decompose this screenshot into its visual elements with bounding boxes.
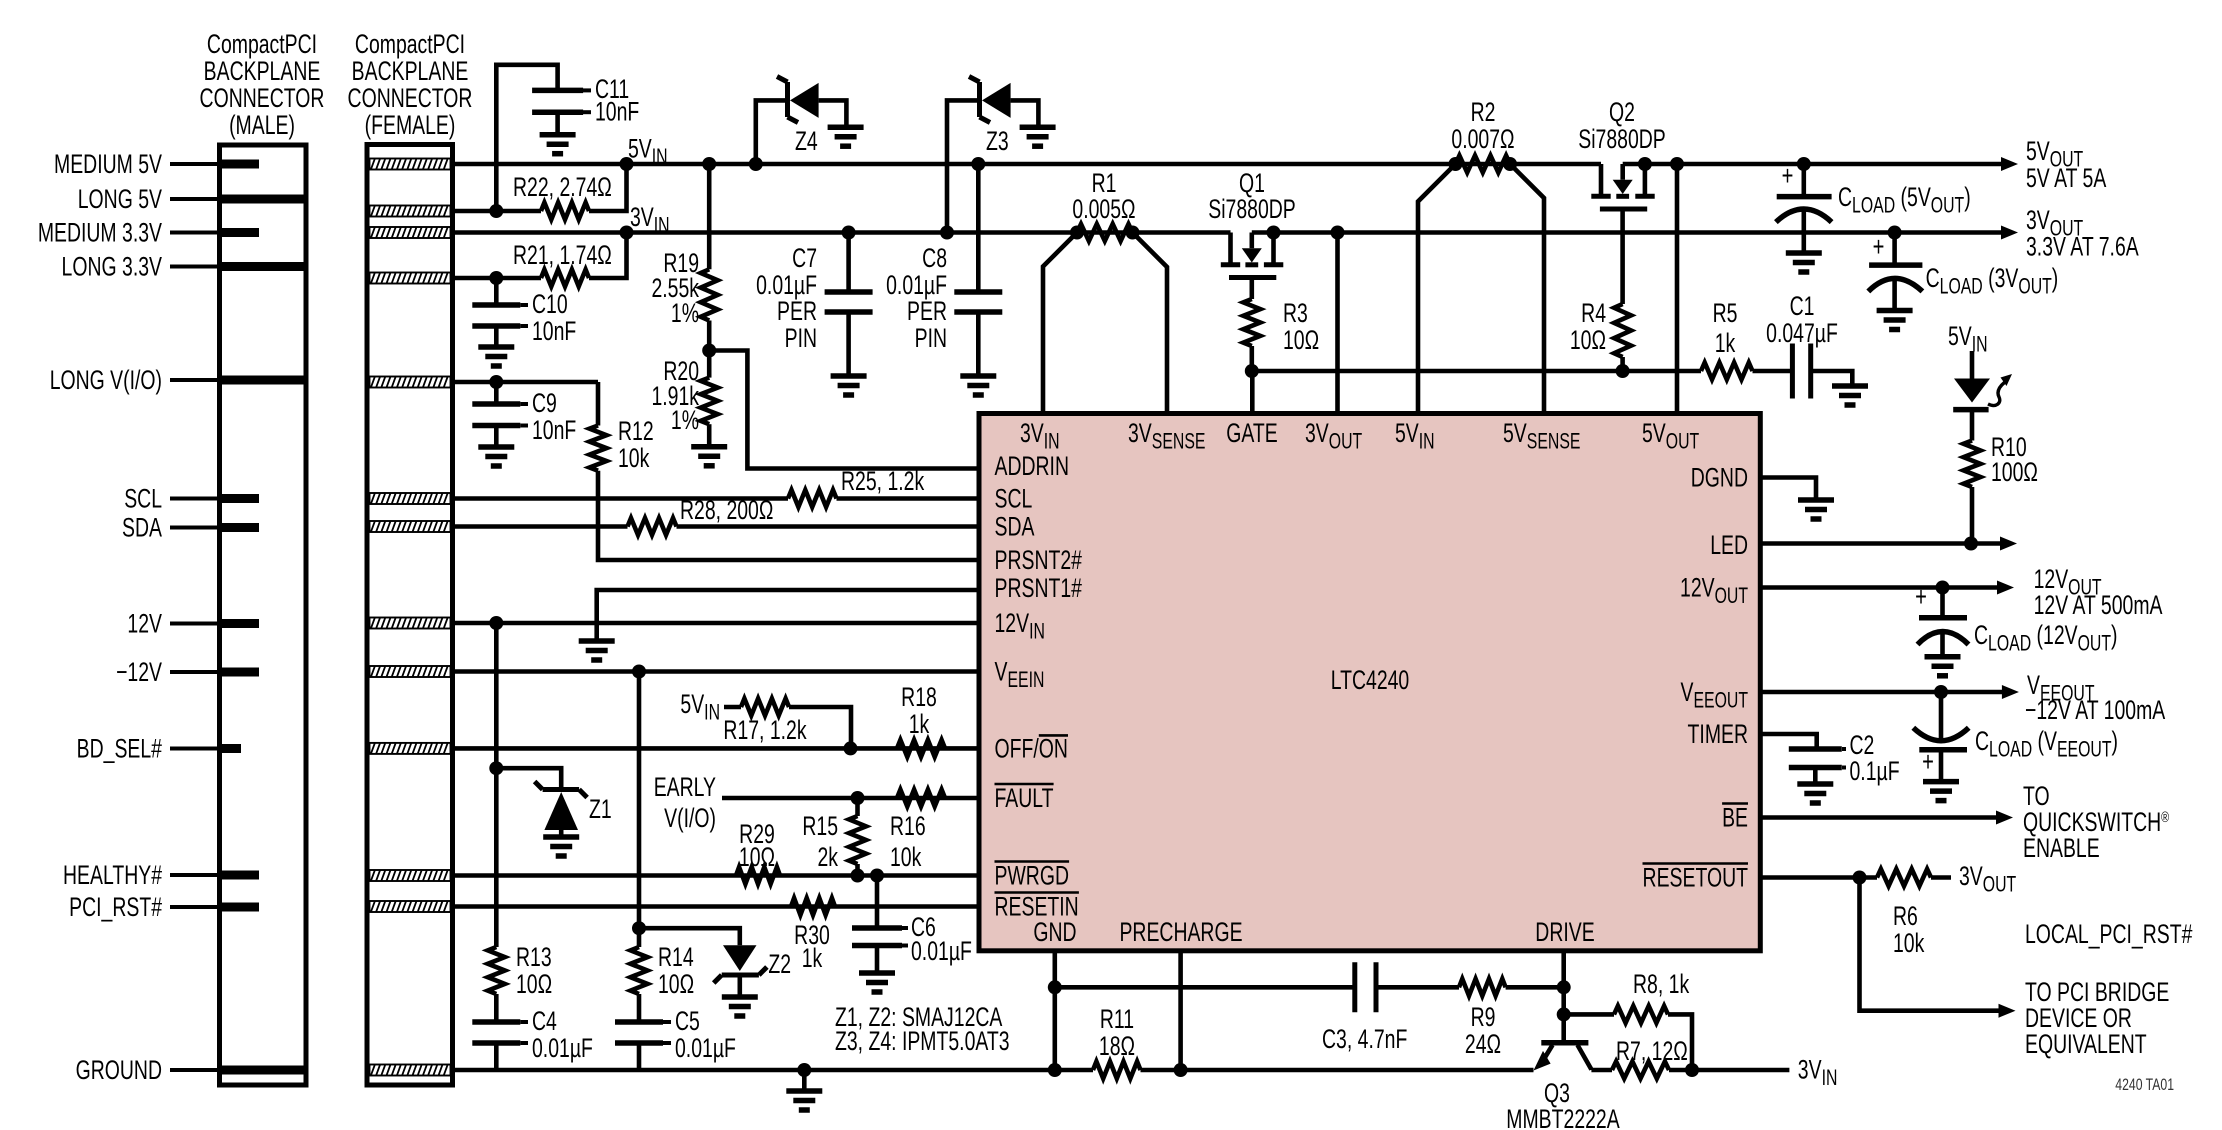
svg-text:10nF: 10nF bbox=[532, 316, 576, 346]
resistor R21 1.74 ohm bbox=[453, 276, 542, 281]
svg-text:10k: 10k bbox=[618, 443, 650, 473]
wire OFF/ON from BD_SEL# bbox=[453, 746, 980, 751]
resistor R3 10 ohm bbox=[1250, 278, 1255, 300]
svg-text:BE: BE bbox=[1722, 802, 1748, 832]
zener Z2 SMAJ12CA bbox=[632, 921, 646, 935]
wire RESETIN from PCI_RST# bbox=[453, 904, 980, 909]
svg-text:10k: 10k bbox=[890, 842, 922, 872]
svg-text:MMBT2222A: MMBT2222A bbox=[1506, 1104, 1620, 1130]
svg-text:24Ω: 24Ω bbox=[1465, 1029, 1501, 1059]
svg-text:1k: 1k bbox=[802, 943, 823, 973]
resistor R11 18 ohm bbox=[1093, 1062, 1141, 1079]
svg-text:BD_SEL#: BD_SEL# bbox=[77, 733, 162, 763]
transistor Q1 Si7880DP MOSFET bbox=[1228, 233, 1233, 263]
resistor R30 1k bbox=[791, 898, 835, 915]
svg-text:LTC4240: LTC4240 bbox=[1331, 665, 1410, 695]
pin SDA (male) bbox=[220, 523, 260, 532]
resistor R8 1k bbox=[1564, 1012, 1614, 1017]
resistor R28 200 ohm on SDA bbox=[453, 524, 628, 529]
pin BD_SEL# (female) bbox=[370, 743, 451, 754]
svg-text:MEDIUM 3.3V: MEDIUM 3.3V bbox=[38, 217, 162, 247]
svg-text:5V AT 5A: 5V AT 5A bbox=[2026, 163, 2107, 193]
svg-text:C7: C7 bbox=[792, 243, 817, 273]
svg-text:PIN: PIN bbox=[915, 323, 947, 353]
svg-text:Z1: Z1 bbox=[589, 794, 612, 824]
wire 5VSENSE pin tap bbox=[1510, 164, 1544, 414]
pin SCL (male) bbox=[220, 494, 260, 503]
wire local PCI reset bbox=[1860, 878, 2001, 1011]
resistor R2 0.007 ohm sense bbox=[1456, 156, 1511, 173]
svg-text:R15: R15 bbox=[802, 811, 838, 841]
wire 3VIN rail bbox=[453, 230, 1231, 235]
svg-text:PER: PER bbox=[907, 296, 947, 326]
svg-text:+: + bbox=[1922, 747, 1934, 778]
pin PCI_RST# (female) bbox=[370, 901, 451, 912]
svg-text:CONNECTOR: CONNECTOR bbox=[200, 83, 325, 113]
svg-text:SCL: SCL bbox=[124, 483, 162, 513]
load capacitor CLOAD VEEOUT bbox=[1939, 692, 1944, 739]
svg-text:R9: R9 bbox=[1471, 1002, 1496, 1032]
resistor R15 2k bbox=[855, 798, 860, 816]
resistor R10 100 ohm bbox=[1970, 410, 1975, 441]
svg-text:Z3: Z3 bbox=[986, 126, 1009, 156]
wire 5VOUT pin stub bbox=[1675, 164, 1680, 414]
svg-text:R8, 1k: R8, 1k bbox=[1633, 969, 1689, 999]
wire 3VSENSE pin tap bbox=[1133, 233, 1168, 414]
svg-text:(FEMALE): (FEMALE) bbox=[365, 110, 456, 140]
svg-text:EQUIVALENT: EQUIVALENT bbox=[2025, 1029, 2147, 1059]
resistor R25 1.2k on SCL bbox=[453, 496, 789, 501]
svg-text:R28, 200Ω: R28, 200Ω bbox=[680, 495, 773, 525]
pin MEDIUM 3.3V (male) bbox=[220, 228, 260, 237]
svg-text:CONNECTOR: CONNECTOR bbox=[348, 83, 473, 113]
svg-text:PRECHARGE: PRECHARGE bbox=[1119, 917, 1242, 947]
svg-text:0.047µF: 0.047µF bbox=[1766, 318, 1838, 348]
svg-text:Z4: Z4 bbox=[795, 126, 818, 156]
svg-text:GROUND: GROUND bbox=[76, 1055, 162, 1085]
pin MEDIUM 5V (female) bbox=[370, 159, 451, 170]
pin LONG 5V (female) bbox=[370, 206, 451, 217]
pin GROUND (female) bbox=[370, 1065, 451, 1076]
pin SCL (female) bbox=[370, 493, 451, 504]
svg-text:10Ω: 10Ω bbox=[516, 969, 552, 999]
wire GATE line bbox=[1252, 369, 1701, 374]
svg-text:LONG 5V: LONG 5V bbox=[78, 184, 162, 214]
svg-text:(MALE): (MALE) bbox=[229, 110, 295, 140]
svg-text:R5: R5 bbox=[1713, 298, 1738, 328]
output arrow 5VOUT bbox=[2001, 157, 2018, 171]
svg-text:PER: PER bbox=[777, 296, 817, 326]
pin LONG 5V (male) bbox=[220, 195, 307, 204]
svg-text:R18: R18 bbox=[901, 682, 937, 712]
svg-text:1k: 1k bbox=[909, 709, 930, 739]
svg-text:PRSNT1#: PRSNT1# bbox=[995, 573, 1082, 603]
svg-text:C5: C5 bbox=[675, 1006, 700, 1036]
svg-text:+: + bbox=[1782, 161, 1794, 192]
svg-text:HEALTHY#: HEALTHY# bbox=[63, 860, 162, 890]
svg-text:3.3V AT 7.6A: 3.3V AT 7.6A bbox=[2026, 231, 2139, 261]
pin MEDIUM 3.3V (female) bbox=[370, 227, 451, 238]
pin −12V (female) bbox=[370, 666, 451, 677]
wire PRECHARGE pin stub bbox=[1178, 951, 1183, 1070]
capacitor C9 10nF bbox=[494, 382, 499, 404]
resistor R18 1k bbox=[897, 740, 945, 757]
svg-text:1%: 1% bbox=[671, 298, 699, 328]
svg-text:FAULT: FAULT bbox=[995, 783, 1054, 813]
pin GROUND (male) bbox=[220, 1066, 307, 1075]
wire PRSNT1# to ground bbox=[597, 590, 979, 641]
wire VEEIN bbox=[453, 669, 980, 674]
svg-text:R25, 1.2k: R25, 1.2k bbox=[841, 466, 924, 496]
svg-text:R4: R4 bbox=[1581, 298, 1606, 328]
svg-text:R12: R12 bbox=[618, 416, 654, 446]
output arrow 3VOUT bbox=[2001, 226, 2018, 240]
svg-text:ENABLE: ENABLE bbox=[2023, 833, 2100, 863]
svg-text:R2: R2 bbox=[1471, 97, 1496, 127]
wire DRIVE pin stub bbox=[1561, 951, 1566, 1041]
svg-text:PCI_RST#: PCI_RST# bbox=[69, 892, 162, 922]
capacitor C8 0.01uF per pin bbox=[976, 164, 981, 292]
resistor R6 10k bbox=[1877, 869, 1931, 886]
zener Z4 IPMT5.0AT3 bbox=[756, 100, 786, 164]
svg-text:−12V: −12V bbox=[116, 657, 162, 687]
capacitor C6 0.01uF bbox=[875, 876, 880, 929]
svg-text:Q2: Q2 bbox=[1609, 97, 1635, 127]
svg-text:Si7880DP: Si7880DP bbox=[1208, 194, 1296, 224]
svg-text:100Ω: 100Ω bbox=[1991, 457, 2038, 487]
svg-text:C9: C9 bbox=[532, 388, 557, 418]
svg-text:0.005Ω: 0.005Ω bbox=[1072, 194, 1135, 224]
wire ground bottom rail bbox=[453, 1068, 1094, 1073]
svg-text:10Ω: 10Ω bbox=[1283, 325, 1319, 355]
load capacitor CLOAD 12VOUT bbox=[1940, 588, 1945, 618]
svg-text:ADDRIN: ADDRIN bbox=[995, 451, 1069, 481]
wire 5VIN rail bbox=[453, 162, 1602, 167]
IC U1 LTC4240 body bbox=[979, 414, 1760, 951]
svg-text:DGND: DGND bbox=[1691, 462, 1748, 492]
svg-text:R17, 1.2k: R17, 1.2k bbox=[723, 715, 806, 745]
pin 12V (male) bbox=[220, 619, 260, 628]
capacitor C1 0.047uF bbox=[1753, 369, 1793, 374]
svg-text:10nF: 10nF bbox=[595, 96, 639, 126]
svg-text:SDA: SDA bbox=[995, 511, 1035, 541]
wire GATE pin stub bbox=[1250, 371, 1255, 414]
svg-text:Z2: Z2 bbox=[768, 949, 791, 979]
svg-text:C1: C1 bbox=[1790, 291, 1815, 321]
svg-text:PRSNT2#: PRSNT2# bbox=[995, 545, 1082, 575]
svg-text:10Ω: 10Ω bbox=[658, 969, 694, 999]
capacitor C4 0.01uF bbox=[494, 994, 499, 1022]
svg-text:SCL: SCL bbox=[995, 483, 1033, 513]
wire 3VIN pin tap bbox=[1043, 233, 1077, 414]
wire 12VOUT output bbox=[1760, 585, 1999, 590]
capacitor C7 0.01uF per pin bbox=[846, 233, 851, 293]
connector J1 CompactPCI backplane male body bbox=[220, 145, 307, 1085]
svg-text:C10: C10 bbox=[532, 289, 568, 319]
transistor Q3 MMBT2222A NPN bbox=[1541, 1040, 1588, 1046]
wire 5VIN pin tap bbox=[1418, 164, 1456, 414]
svg-text:C8: C8 bbox=[922, 243, 947, 273]
svg-text:R6: R6 bbox=[1893, 901, 1918, 931]
pin SDA (female) bbox=[370, 521, 451, 532]
resistor R16 10k bbox=[897, 790, 945, 807]
svg-text:TIMER: TIMER bbox=[1688, 719, 1748, 749]
svg-text:MEDIUM 5V: MEDIUM 5V bbox=[54, 149, 162, 179]
ground symbol bottom rail bbox=[797, 1063, 811, 1077]
svg-text:LED: LED bbox=[1710, 530, 1748, 560]
svg-text:R11: R11 bbox=[1100, 1004, 1134, 1034]
node 3VIN junction dots bbox=[620, 226, 634, 240]
resistor R22 2.74 ohm bbox=[453, 209, 542, 214]
pin HEALTHY# (female) bbox=[370, 870, 451, 881]
wire ADDRIN bbox=[709, 351, 979, 469]
pin BD_SEL# (male) bbox=[220, 744, 242, 753]
svg-text:CompactPCI: CompactPCI bbox=[207, 29, 317, 59]
svg-text:R22, 2.74Ω: R22, 2.74Ω bbox=[513, 172, 612, 202]
svg-text:C3, 4.7nF: C3, 4.7nF bbox=[1322, 1024, 1407, 1054]
pin LONG 3.3V (male) bbox=[220, 262, 307, 271]
wire BE output to quickswitch enable bbox=[1760, 815, 1998, 820]
resistor R13 10 ohm bbox=[488, 947, 505, 994]
svg-text:0.007Ω: 0.007Ω bbox=[1451, 124, 1514, 154]
svg-text:R16: R16 bbox=[890, 811, 926, 841]
svg-text:12V AT 500mA: 12V AT 500mA bbox=[2034, 590, 2163, 620]
resistor R4 10 ohm bbox=[1620, 209, 1625, 304]
svg-text:18Ω: 18Ω bbox=[1099, 1031, 1135, 1061]
svg-text:GATE: GATE bbox=[1226, 418, 1277, 448]
resistor R12 10k bbox=[590, 426, 607, 471]
svg-text:1k: 1k bbox=[1715, 328, 1736, 358]
svg-text:0.01µF: 0.01µF bbox=[532, 1033, 593, 1063]
pin MEDIUM 5V (male) bbox=[220, 160, 260, 169]
svg-text:0.01µF: 0.01µF bbox=[675, 1033, 736, 1063]
pin LONG 3.3V (female) bbox=[370, 273, 451, 284]
pin LONG V(I/O) (male) bbox=[220, 376, 307, 385]
wire PWRGD from HEALTHY# bbox=[453, 873, 980, 878]
capacitor C11 10nF bbox=[496, 65, 557, 211]
svg-text:LONG 3.3V: LONG 3.3V bbox=[62, 251, 163, 281]
svg-text:RESETOUT: RESETOUT bbox=[1643, 862, 1748, 892]
wire FAULT line bbox=[722, 796, 979, 801]
svg-text:DRIVE: DRIVE bbox=[1535, 917, 1594, 947]
pin HEALTHY# (male) bbox=[220, 871, 260, 880]
resistor R5 1k bbox=[1701, 363, 1753, 380]
svg-text:12V: 12V bbox=[127, 608, 162, 638]
svg-text:C4: C4 bbox=[532, 1006, 557, 1036]
pin −12V (male) bbox=[220, 668, 260, 677]
svg-text:4240 TA01: 4240 TA01 bbox=[2115, 1076, 2174, 1094]
zener Z1 SMAJ12CA bbox=[489, 761, 503, 775]
wire GND pin stub bbox=[1053, 951, 1058, 1070]
wire DGND to ground bbox=[1760, 478, 1816, 501]
svg-text:BACKPLANE: BACKPLANE bbox=[352, 56, 469, 86]
svg-text:0.01µF: 0.01µF bbox=[911, 936, 972, 966]
svg-text:LOCAL_PCI_RST#: LOCAL_PCI_RST# bbox=[2025, 919, 2192, 949]
capacitor C5 0.01uF bbox=[637, 994, 642, 1022]
wire VEEOUT output bbox=[1760, 690, 2003, 695]
svg-text:2k: 2k bbox=[817, 842, 838, 872]
capacitor C3 4.7nF bbox=[1055, 985, 1355, 990]
svg-text:R3: R3 bbox=[1283, 298, 1308, 328]
svg-text:Z3, Z4: IPMT5.0AT3: Z3, Z4: IPMT5.0AT3 bbox=[835, 1026, 1010, 1056]
svg-text:OFF/ON: OFF/ON bbox=[995, 733, 1068, 763]
svg-text:V(I/O): V(I/O) bbox=[664, 803, 716, 833]
resistor R14 10 ohm bbox=[631, 947, 648, 994]
zener Z3 IPMT5.0AT3 bbox=[947, 100, 977, 232]
load capacitor CLOAD 5VOUT bbox=[1802, 164, 1807, 197]
wire RESETOUT bbox=[1760, 875, 1877, 880]
svg-text:−12V AT 100mA: −12V AT 100mA bbox=[2025, 695, 2166, 725]
svg-text:+: + bbox=[1873, 232, 1885, 263]
resistor R19 2.55k 1% bbox=[707, 164, 712, 269]
pin PCI_RST# (male) bbox=[220, 903, 260, 912]
wire LONG V(I/O) to R12 bbox=[453, 380, 599, 385]
svg-text:EARLY: EARLY bbox=[654, 772, 717, 802]
capacitor C2 0.1uF on TIMER bbox=[1760, 734, 1816, 749]
svg-text:CompactPCI: CompactPCI bbox=[355, 29, 465, 59]
wire 12VIN bbox=[453, 621, 980, 626]
svg-text:R7, 12Ω: R7, 12Ω bbox=[1616, 1036, 1688, 1066]
svg-text:LONG V(I/O): LONG V(I/O) bbox=[50, 365, 162, 395]
transistor Q2 Si7880DP MOSFET bbox=[1599, 164, 1604, 194]
svg-text:1%: 1% bbox=[671, 405, 699, 435]
svg-text:R13: R13 bbox=[516, 942, 552, 972]
load capacitor CLOAD 3VOUT bbox=[1892, 233, 1897, 266]
svg-text:SDA: SDA bbox=[122, 512, 162, 542]
node 5VIN junction dots bbox=[620, 157, 634, 171]
resistor R29 10 ohm bbox=[736, 867, 780, 884]
resistor R9 24 ohm bbox=[1459, 979, 1506, 996]
wire precharge rail bbox=[1141, 1068, 1534, 1073]
svg-text:0.1µF: 0.1µF bbox=[1850, 756, 1900, 786]
svg-text:GND: GND bbox=[1033, 917, 1076, 947]
capacitor C10 10nF bbox=[494, 278, 499, 305]
svg-text:10Ω: 10Ω bbox=[739, 842, 775, 872]
wire PRSNT2# bbox=[598, 471, 979, 560]
svg-text:R21, 1.74Ω: R21, 1.74Ω bbox=[513, 240, 612, 270]
resistor R1 0.005 ohm sense bbox=[1077, 224, 1133, 241]
wire 3VOUT pin stub bbox=[1335, 233, 1340, 414]
svg-text:R14: R14 bbox=[658, 942, 694, 972]
svg-text:10k: 10k bbox=[1893, 928, 1925, 958]
pin LONG V(I/O) (female) bbox=[370, 377, 451, 388]
svg-text:10Ω: 10Ω bbox=[1570, 325, 1606, 355]
pin 12V (female) bbox=[370, 618, 451, 629]
resistor R20 1.91k 1% bbox=[702, 344, 716, 358]
connector J2 CompactPCI backplane female body bbox=[367, 145, 453, 1086]
svg-text:+: + bbox=[1915, 582, 1927, 613]
wire LED output bbox=[1760, 541, 2001, 546]
svg-text:10nF: 10nF bbox=[532, 415, 576, 445]
svg-text:PWRGD: PWRGD bbox=[995, 860, 1069, 890]
svg-text:Si7880DP: Si7880DP bbox=[1578, 124, 1666, 154]
wire 12V filter branch bbox=[494, 623, 499, 947]
svg-text:PIN: PIN bbox=[785, 323, 817, 353]
wire -12V filter branch bbox=[637, 672, 642, 948]
resistor R7 12 ohm bbox=[1591, 1068, 1612, 1073]
svg-text:BACKPLANE: BACKPLANE bbox=[204, 56, 321, 86]
